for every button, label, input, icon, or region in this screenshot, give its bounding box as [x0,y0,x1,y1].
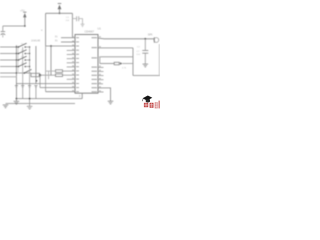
switch S1 [18,43,30,48]
wire [123,63,134,65]
wire [158,44,160,76]
wire VCC rail [46,12,73,14]
svg-text:1N4148: 1N4148 [31,39,41,43]
capacitor C5 [28,84,31,104]
ground [81,24,85,27]
junction dot [144,38,146,40]
junction dot [16,98,18,100]
switch S4 [18,63,30,68]
svg-text:8: 8 [79,95,81,98]
ground [3,105,9,108]
wire [100,63,114,65]
svg-text:C1: C1 [66,17,70,19]
vertical bus B [22,47,24,84]
power VCC arrow P1 [23,12,26,26]
switch S2 [18,50,30,55]
diode D1 [120,62,123,65]
wire [132,48,134,76]
svg-text:+5V: +5V [20,8,25,12]
power VCC arrow P2 [58,4,62,14]
junction dot [24,25,26,27]
wire pin right [98,47,133,49]
svg-text:U1: U1 [98,27,102,31]
svg-text:IN: IN [55,40,58,43]
wire pin1 [61,37,75,39]
capacitor C3 [15,86,18,99]
ground rail [16,98,82,100]
switch S3 [18,56,30,61]
junction dot [59,12,61,14]
wire [40,87,75,89]
IC U1 box [75,35,98,94]
junction dot [50,45,52,47]
resistor R4 [114,62,119,65]
logo red characters [144,103,154,108]
IC left pin names [76,37,79,92]
capacitor C6 [142,39,148,64]
wire pin2 [61,41,75,43]
module box top [100,57,133,64]
wire to ground [98,88,111,101]
resistor R1 [31,73,56,87]
ground [27,104,33,110]
IC left pin stubs [67,50,75,79]
svg-text:104: 104 [136,54,140,56]
resistor R2 [46,70,75,73]
wire [16,83,75,85]
ground [108,101,114,104]
vertical bus C [29,47,31,84]
vertical bus A [15,45,17,99]
capacitor C2 [72,16,82,24]
capacitor C6b [34,86,37,99]
wire lower rail [6,103,76,105]
wire [45,13,47,46]
wire IC gnd pin [81,93,83,98]
wire row6 mark [0,76,16,78]
wire jog [48,71,50,79]
IC right pin numbers [99,36,101,91]
svg-text:C2: C2 [137,47,141,49]
wire bottom right rail [133,75,160,77]
switch row wires S1-S5 [0,47,31,73]
svg-text:SPK: SPK [148,34,153,37]
IC right lower pin stubs [98,67,104,92]
wire [50,46,52,75]
capacitor C1 (electrolytic) [1,26,6,38]
resistor R3 [56,74,76,77]
wire to buzzer [98,37,154,40]
logo graduation cap [142,96,152,103]
svg-text:CD4067: CD4067 [85,30,95,34]
wire [46,91,75,93]
switch S5 [24,69,32,73]
ground [14,99,20,105]
wire [46,45,75,47]
svg-text:104: 104 [66,20,70,22]
vertical bus D [35,46,37,84]
wire [45,46,47,92]
svg-text:R: R [41,30,43,32]
wire [71,13,73,37]
IC left pin numbers [72,36,74,91]
wire [3,25,25,27]
capacitor C4 [21,84,24,99]
buzzer LS1 [154,37,159,42]
IC right pin names [92,37,98,92]
svg-text:IN: IN [55,35,58,38]
svg-text:4.7k: 4.7k [122,67,127,69]
ground [143,64,149,67]
